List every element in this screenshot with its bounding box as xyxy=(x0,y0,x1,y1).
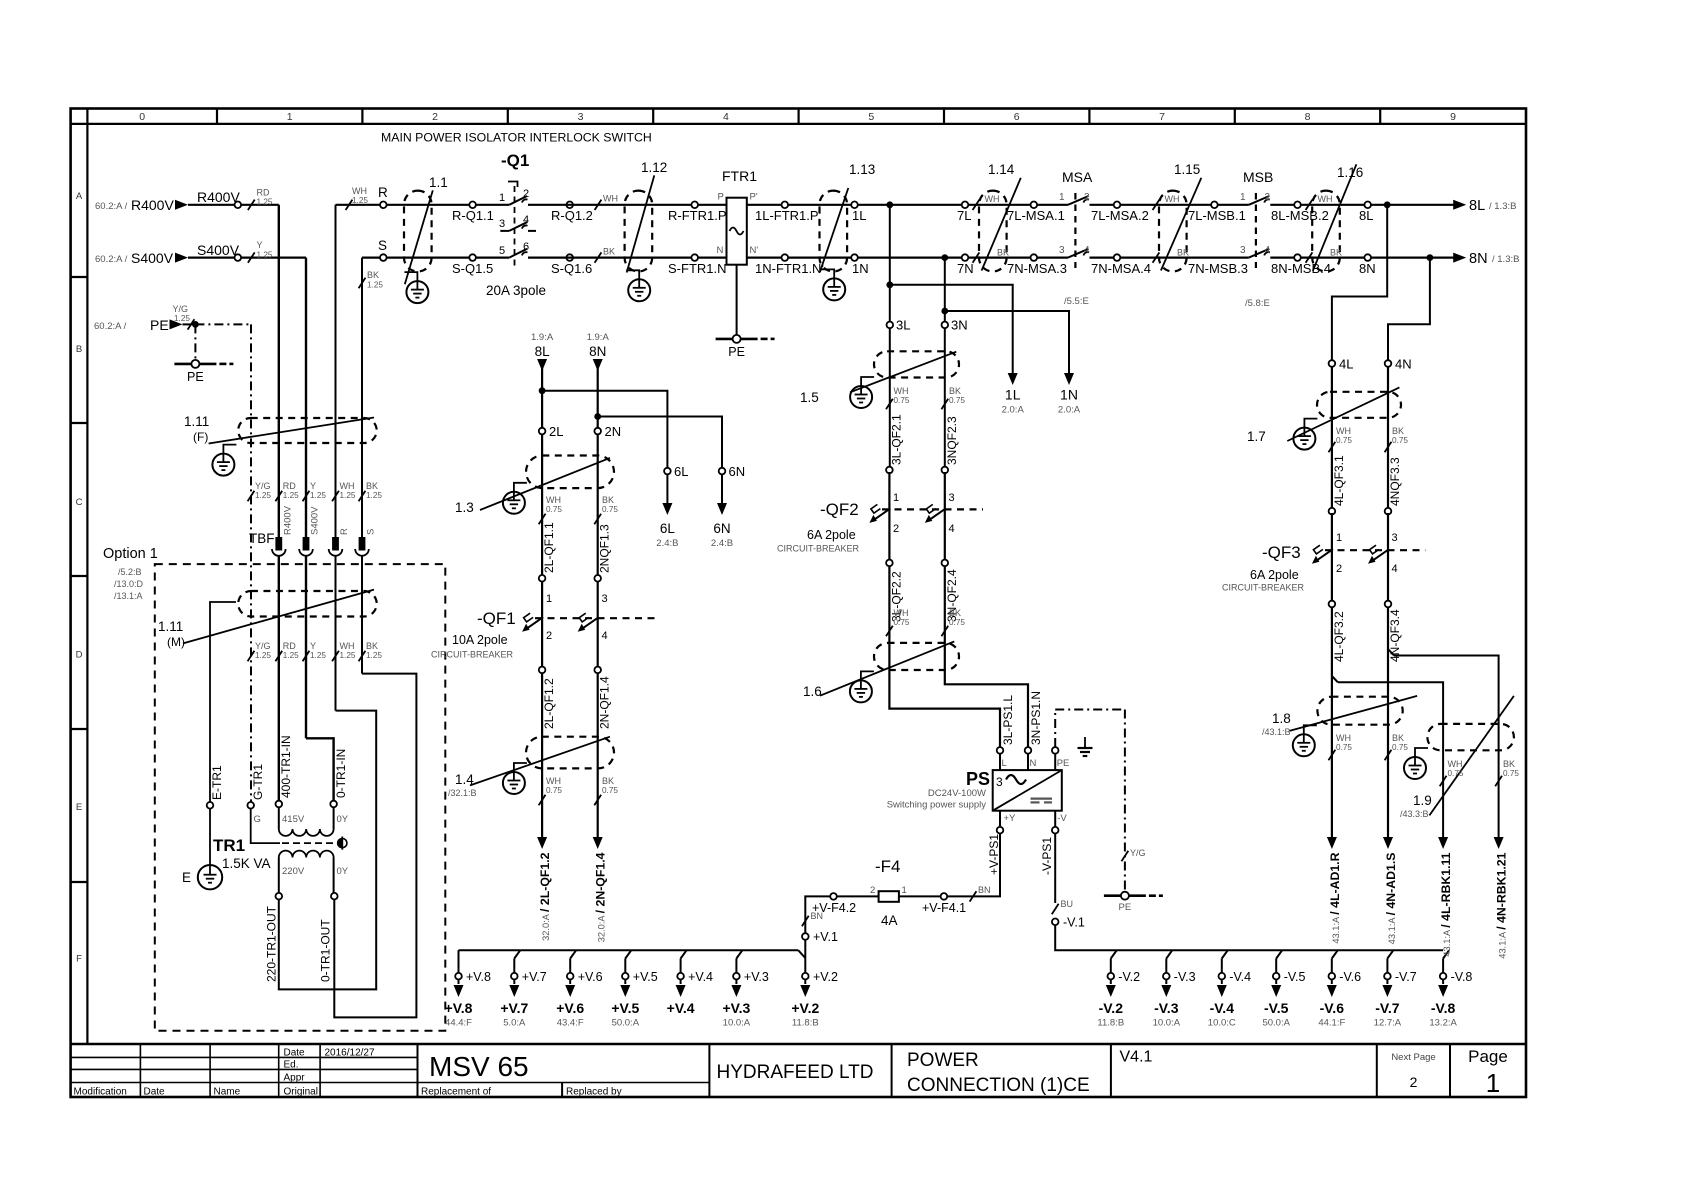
svg-text:1.11: 1.11 xyxy=(158,619,183,634)
svg-text:2: 2 xyxy=(523,188,529,200)
svg-text:1: 1 xyxy=(1240,192,1246,203)
terminal QF2 pin 1 xyxy=(886,467,899,504)
svg-text:E: E xyxy=(182,870,191,885)
terminal 6L xyxy=(664,464,688,479)
terminal R-Q1.2 xyxy=(551,202,593,224)
svg-text:1.25: 1.25 xyxy=(283,651,299,660)
svg-text:S-FTR1.N: S-FTR1.N xyxy=(668,261,727,276)
svg-text:4: 4 xyxy=(1392,563,1398,575)
svg-text:0.75: 0.75 xyxy=(602,505,618,514)
svg-text:+Y: +Y xyxy=(1004,813,1017,824)
CT oval 1.5 xyxy=(800,351,959,405)
node 1L xyxy=(851,202,866,224)
+V distribution bus xyxy=(459,950,806,958)
svg-text:BU: BU xyxy=(1061,899,1074,909)
svg-text:DC24V-100W: DC24V-100W xyxy=(928,788,986,799)
svg-text:1.25: 1.25 xyxy=(340,491,356,500)
svg-text:1.25: 1.25 xyxy=(310,491,326,500)
svg-text:1.4: 1.4 xyxy=(455,772,474,787)
svg-text:TR1: TR1 xyxy=(213,836,245,855)
breaker pole QF3 3-4 xyxy=(1368,545,1398,575)
svg-text:-V.5: -V.5 xyxy=(1284,970,1306,984)
wire 4L branch xyxy=(1332,205,1387,360)
earth symbol 1.4 xyxy=(503,772,525,794)
svg-text:WH: WH xyxy=(894,386,909,396)
svg-text:13.2:A: 13.2:A xyxy=(1429,1018,1457,1029)
svg-text:1.25: 1.25 xyxy=(352,196,368,205)
terminal R400V xyxy=(235,202,242,209)
earth symbol 1.8 xyxy=(1293,734,1315,756)
svg-text:2: 2 xyxy=(1084,192,1090,203)
svg-text:PE: PE xyxy=(187,370,204,384)
wire N bus MSA-MSB xyxy=(965,257,1454,259)
svg-text:0: 0 xyxy=(139,111,145,123)
svg-text:1.8: 1.8 xyxy=(1272,711,1291,726)
tap -V.8 xyxy=(1429,950,1472,1028)
svg-text:1.25: 1.25 xyxy=(257,198,273,207)
svg-text:1: 1 xyxy=(893,492,899,504)
svg-text:-Q1: -Q1 xyxy=(501,151,529,170)
sheet ref 4L-RBK1.11 xyxy=(1438,837,1453,957)
svg-text:-V.5: -V.5 xyxy=(1264,1000,1289,1016)
wire R400V xyxy=(188,204,279,206)
svg-text:-QF3: -QF3 xyxy=(1262,543,1301,562)
Option 1 enclosure xyxy=(103,546,445,1031)
terminal 1N-FTR1.N' xyxy=(755,254,824,276)
wire marker BN right xyxy=(970,885,991,902)
wire S to Q1 xyxy=(362,258,509,537)
wire branch 4L-RBK xyxy=(1332,676,1443,838)
svg-text:0Y: 0Y xyxy=(337,814,349,825)
svg-text:-V: -V xyxy=(1057,813,1067,824)
wire markers QF1 top xyxy=(539,495,619,524)
svg-text:0.75: 0.75 xyxy=(949,396,965,405)
svg-text:PE: PE xyxy=(150,317,169,333)
svg-text:4: 4 xyxy=(1084,245,1090,256)
svg-text:+V-F4.1: +V-F4.1 xyxy=(922,901,966,915)
svg-text:N: N xyxy=(717,245,724,256)
svg-text:1.12: 1.12 xyxy=(641,160,667,175)
svg-text:2016/12/27: 2016/12/27 xyxy=(325,1048,375,1059)
svg-text:P: P xyxy=(718,192,724,203)
svg-text:3L: 3L xyxy=(896,318,910,333)
wire marker BK 1.25 xyxy=(359,270,384,289)
terminal QF1 pin 2 xyxy=(539,667,546,674)
wire E-TR1 xyxy=(210,602,236,865)
svg-text:Y: Y xyxy=(310,481,316,491)
terminal QF1 pin 4 xyxy=(594,667,601,674)
svg-text:BK: BK xyxy=(997,248,1009,258)
svg-text:+V.3: +V.3 xyxy=(744,970,769,984)
svg-text:7L: 7L xyxy=(957,208,971,223)
node S xyxy=(378,238,387,261)
svg-text:PE: PE xyxy=(1119,902,1132,913)
wire S400V xyxy=(188,257,306,259)
svg-text:RD: RD xyxy=(283,481,296,491)
svg-text:-V.1: -V.1 xyxy=(1063,916,1085,930)
svg-text:CIRCUIT-BREAKER: CIRCUIT-BREAKER xyxy=(431,650,514,660)
svg-text:-V.7: -V.7 xyxy=(1395,970,1417,984)
earth symbol at PS xyxy=(1078,737,1093,756)
svg-text:415V: 415V xyxy=(282,814,305,825)
svg-text:+V.6: +V.6 xyxy=(556,1000,584,1016)
svg-text:WH: WH xyxy=(1336,733,1351,743)
svg-text:2L-QF1.1: 2L-QF1.1 xyxy=(542,522,556,573)
svg-text:0.75: 0.75 xyxy=(894,618,910,627)
svg-text:1.25: 1.25 xyxy=(310,651,326,660)
svg-text:2: 2 xyxy=(893,523,899,535)
svg-text:1.7: 1.7 xyxy=(1247,429,1266,444)
svg-text:1.25: 1.25 xyxy=(174,314,190,323)
svg-text:+V.8: +V.8 xyxy=(466,970,491,984)
circuit breaker -QF3 xyxy=(1222,513,1425,601)
junction 6N xyxy=(594,413,601,420)
svg-text:/ 1.3:B: / 1.3:B xyxy=(1489,201,1516,212)
svg-text:3: 3 xyxy=(1392,532,1398,544)
svg-text:MSA: MSA xyxy=(1062,169,1093,185)
sheet ref 4N-RBK1.21 xyxy=(1494,837,1509,959)
svg-text:6A 2pole: 6A 2pole xyxy=(807,528,856,542)
svg-text:BK: BK xyxy=(1503,759,1515,769)
wire S-Q1.6 to FTR1 xyxy=(528,257,727,259)
wire marker BK xyxy=(595,246,615,262)
row letters xyxy=(71,191,88,965)
svg-text:-QF2: -QF2 xyxy=(820,500,859,519)
terminal QF3 pin 1 xyxy=(1329,508,1343,544)
CT oval 1.11 M xyxy=(158,590,377,649)
svg-text:7L-MSA.2: 7L-MSA.2 xyxy=(1091,208,1149,223)
svg-text:4: 4 xyxy=(1265,245,1271,256)
node 7N xyxy=(957,254,974,276)
svg-text:1.25: 1.25 xyxy=(366,651,382,660)
earth symbol 1.12 xyxy=(628,279,650,301)
svg-text:8N: 8N xyxy=(1469,251,1488,267)
svg-text:2.0:A: 2.0:A xyxy=(1058,405,1081,416)
svg-text:0Y: 0Y xyxy=(337,866,349,877)
wire marker Y/G xyxy=(1122,848,1146,861)
svg-text:BK: BK xyxy=(949,386,961,396)
tap -V.3 xyxy=(1153,950,1196,1028)
svg-text:6N: 6N xyxy=(713,521,730,536)
CT oval 1.8 xyxy=(1262,696,1417,737)
svg-text:43.1:A / 4L-RBK1.11: 43.1:A / 4L-RBK1.11 xyxy=(1439,852,1453,956)
svg-text:2.0:A: 2.0:A xyxy=(1002,405,1025,416)
svg-text:0.75: 0.75 xyxy=(1336,436,1352,445)
svg-text:N: N xyxy=(1030,758,1037,769)
terminal QF2 pin 4 xyxy=(942,560,949,567)
wire QF2 out N xyxy=(945,566,1028,747)
wire +V riser xyxy=(947,834,1000,897)
svg-text:8L: 8L xyxy=(535,344,551,359)
svg-text:S-Q1.5: S-Q1.5 xyxy=(452,261,493,276)
svg-text:G-TR1: G-TR1 xyxy=(251,764,265,800)
svg-text:0.75: 0.75 xyxy=(1392,743,1408,752)
svg-text:+V.5: +V.5 xyxy=(633,970,658,984)
wire markers row inside Option 1 xyxy=(248,641,383,661)
svg-text:R: R xyxy=(378,185,388,200)
svg-text:+V.7: +V.7 xyxy=(522,970,547,984)
terminal R-Q1.1 xyxy=(452,202,494,224)
terminal 220-TR1-OUT xyxy=(265,893,283,982)
svg-text:Option 1: Option 1 xyxy=(103,546,158,562)
svg-text:3: 3 xyxy=(602,593,608,605)
wire R400V drop xyxy=(278,205,280,537)
earth symbol 1.6 xyxy=(850,680,872,702)
svg-text:10.0:A: 10.0:A xyxy=(723,1018,751,1029)
svg-text:N': N' xyxy=(750,245,759,256)
breaker pole QF1 1-2 xyxy=(522,613,552,642)
node 7L xyxy=(957,202,971,224)
svg-text:1N: 1N xyxy=(1060,387,1078,403)
svg-text:8L: 8L xyxy=(1359,208,1373,223)
wire 4N branch xyxy=(1388,258,1430,361)
svg-text:0.75: 0.75 xyxy=(546,786,562,795)
node 1N xyxy=(851,254,868,276)
contact MSB 1-2 xyxy=(1240,192,1271,205)
svg-text:Y: Y xyxy=(257,240,263,250)
wire markers 1.9 xyxy=(1440,759,1520,786)
svg-text:V4.1: V4.1 xyxy=(1120,1049,1153,1066)
wire markers row above TBF xyxy=(248,481,383,501)
svg-text:2: 2 xyxy=(1336,563,1342,575)
svg-text:+V.3: +V.3 xyxy=(722,1000,750,1016)
svg-text:1: 1 xyxy=(1059,192,1065,203)
svg-text:1N-FTR1.N': 1N-FTR1.N' xyxy=(755,261,824,276)
svg-text:R-Q1.1: R-Q1.1 xyxy=(452,208,494,223)
svg-text:44.4:F: 44.4:F xyxy=(445,1018,472,1029)
svg-text:1.5: 1.5 xyxy=(800,390,819,405)
breaker pole QF1 3-4 xyxy=(578,613,608,642)
svg-text:S: S xyxy=(366,529,377,535)
terminal +V.2 xyxy=(802,970,838,984)
TBF wires to Option 1 xyxy=(0,0,1,1)
svg-text:1.5K VA: 1.5K VA xyxy=(222,856,271,871)
terminal PS PE xyxy=(1052,747,1069,770)
CT oval 1.9 xyxy=(1400,696,1514,819)
svg-text:-V-PS1: -V-PS1 xyxy=(1040,837,1054,875)
earth symbol E xyxy=(182,865,222,889)
svg-text:6N: 6N xyxy=(729,464,746,479)
svg-text:Page: Page xyxy=(1468,1047,1508,1066)
earth symbol 1.11 F xyxy=(212,454,234,476)
terminal PS L xyxy=(997,747,1007,770)
wire to 1N arrow xyxy=(945,311,1069,381)
svg-text:Y/G: Y/G xyxy=(255,481,271,491)
svg-text:4A: 4A xyxy=(881,913,898,928)
svg-text:+V.1: +V.1 xyxy=(813,930,838,944)
svg-text:R400V: R400V xyxy=(131,197,174,213)
svg-text:Y: Y xyxy=(310,641,316,651)
svg-text:-V.7: -V.7 xyxy=(1375,1000,1400,1016)
sheet ref 2L-QF1.2 xyxy=(537,837,552,941)
svg-text:MSV 65: MSV 65 xyxy=(429,1051,529,1082)
svg-text:WH: WH xyxy=(1448,759,1463,769)
terminal QF3 pin 3 xyxy=(1385,508,1398,544)
svg-text:5.0:A: 5.0:A xyxy=(503,1018,526,1029)
svg-text:5: 5 xyxy=(499,245,505,257)
contact Q1 1-2 xyxy=(499,188,529,205)
junction 1L branch xyxy=(886,281,893,288)
svg-text:7: 7 xyxy=(1159,111,1165,123)
svg-text:11.8:B: 11.8:B xyxy=(792,1018,819,1029)
svg-text:9: 9 xyxy=(1450,111,1456,123)
svg-text:WH: WH xyxy=(340,481,355,491)
svg-text:44.1:F: 44.1:F xyxy=(1318,1018,1345,1029)
svg-text:MSB: MSB xyxy=(1243,169,1273,185)
svg-text:1.25: 1.25 xyxy=(255,491,271,500)
svg-text:3L-PS1.L: 3L-PS1.L xyxy=(1001,695,1015,745)
sheet ref +V.2 xyxy=(791,980,819,1029)
svg-text:+V.2: +V.2 xyxy=(791,1000,819,1016)
input R400V xyxy=(95,189,240,213)
svg-text:+V.7: +V.7 xyxy=(500,1000,528,1016)
svg-text:32.0:A / 2N-QF1.4: 32.0:A / 2N-QF1.4 xyxy=(594,852,608,942)
svg-text:32.0:A / 2L-QF1.2: 32.0:A / 2L-QF1.2 xyxy=(538,852,552,941)
svg-text:7L-MSA.1: 7L-MSA.1 xyxy=(1007,208,1065,223)
svg-text:WH: WH xyxy=(546,776,561,786)
wire FTR1 out L xyxy=(747,204,965,206)
tap -V.7 xyxy=(1374,950,1417,1028)
svg-text:2N-QF1.4: 2N-QF1.4 xyxy=(598,676,612,729)
svg-text:0.75: 0.75 xyxy=(1503,769,1519,778)
wire R-Q1.2 to FTR1 xyxy=(528,204,727,206)
junction 3L xyxy=(886,201,893,208)
sheet ref 6N xyxy=(711,474,733,549)
terminal 400-TR1-IN xyxy=(276,735,294,807)
svg-text:BK: BK xyxy=(366,641,378,651)
svg-text:0.75: 0.75 xyxy=(1336,743,1352,752)
svg-text:RD: RD xyxy=(283,641,296,651)
terminal strip TBF xyxy=(249,505,377,556)
terminal 0-TR1-OUT xyxy=(319,893,338,982)
border frame xyxy=(71,109,1526,1098)
wire F4 to +V.1 xyxy=(805,896,830,933)
svg-text:0-TR1-IN: 0-TR1-IN xyxy=(334,749,348,798)
sheet source 8N xyxy=(587,332,610,371)
wire 3N drop xyxy=(944,258,946,470)
node PE junction xyxy=(192,321,199,328)
terminal PS N xyxy=(1025,747,1037,770)
CT oval 1.13 xyxy=(820,162,876,272)
svg-text:+V.4: +V.4 xyxy=(688,970,713,984)
svg-text:8L: 8L xyxy=(1469,198,1485,214)
wire L bus MSA-MSB xyxy=(965,204,1454,206)
breaker pole QF2 3-4 xyxy=(925,504,955,535)
svg-text:/5.5:E: /5.5:E xyxy=(1064,296,1089,307)
wire marker RD 1.25 xyxy=(248,187,273,210)
svg-text:1: 1 xyxy=(546,593,552,605)
svg-text:WH: WH xyxy=(340,641,355,651)
MSA linkage xyxy=(1074,193,1076,268)
terminal 8L-MSB.2 xyxy=(1271,202,1329,224)
tap +V.8 xyxy=(445,950,491,1028)
svg-text:3: 3 xyxy=(996,775,1003,789)
svg-text:+V.6: +V.6 xyxy=(578,970,603,984)
svg-text:1: 1 xyxy=(902,885,907,896)
svg-text:7L-MSB.1: 7L-MSB.1 xyxy=(1188,208,1246,223)
svg-text:B: B xyxy=(76,344,82,355)
svg-text:1L: 1L xyxy=(852,208,866,223)
svg-text:4: 4 xyxy=(602,630,608,642)
svg-text:/13.1:A: /13.1:A xyxy=(114,591,143,601)
wire FTR1 PE xyxy=(736,265,738,339)
column numbers xyxy=(139,111,1456,123)
wire to 6N xyxy=(598,417,722,468)
wire marker Y 1.25 xyxy=(248,240,273,263)
wire PE dashdot xyxy=(195,324,251,805)
svg-text:7N-MSA.3: 7N-MSA.3 xyxy=(1007,261,1067,276)
wire 2L xyxy=(541,362,543,578)
svg-text:4N: 4N xyxy=(1395,356,1412,371)
svg-text:L: L xyxy=(1002,758,1007,769)
svg-text:S400V: S400V xyxy=(131,250,174,266)
svg-text:8N-MSB.4: 8N-MSB.4 xyxy=(1271,261,1331,276)
wire to 6L xyxy=(542,391,667,468)
terminal PS +V out xyxy=(997,811,1016,834)
svg-text:0.75: 0.75 xyxy=(546,505,562,514)
svg-text:Replacement of: Replacement of xyxy=(421,1087,491,1098)
svg-text:G: G xyxy=(254,814,261,825)
tap -V.4 xyxy=(1208,950,1251,1028)
wire marker WH xyxy=(595,194,618,211)
terminal 3L xyxy=(887,318,911,333)
tap +V.7 xyxy=(500,950,546,1028)
junction 4L xyxy=(1384,201,1391,208)
svg-text:CIRCUIT-BREAKER: CIRCUIT-BREAKER xyxy=(1222,583,1305,593)
svg-text:/ 1.3:B: / 1.3:B xyxy=(1492,254,1519,265)
wire 4N down xyxy=(1387,367,1389,508)
tap +V.5 xyxy=(611,950,657,1028)
svg-text:8L-MSB.2: 8L-MSB.2 xyxy=(1271,208,1329,223)
wire 2N xyxy=(597,362,599,578)
svg-text:WH: WH xyxy=(1318,194,1333,204)
svg-text:+V.4: +V.4 xyxy=(667,1000,695,1016)
wire markers QF2 bottom xyxy=(886,608,965,636)
svg-text:MAIN POWER ISOLATOR INTERLOCK: MAIN POWER ISOLATOR INTERLOCK SWITCH xyxy=(381,131,652,145)
svg-text:2: 2 xyxy=(1410,1074,1418,1090)
svg-text:2N: 2N xyxy=(605,424,622,439)
svg-text:2: 2 xyxy=(546,630,552,642)
svg-text:BK: BK xyxy=(1330,248,1342,258)
terminal 2L xyxy=(539,424,564,439)
svg-text:WH: WH xyxy=(352,186,367,196)
svg-text:WH: WH xyxy=(603,194,618,204)
svg-text:D: D xyxy=(76,650,83,661)
svg-text:1.13: 1.13 xyxy=(849,162,875,177)
earth symbol 1.5 xyxy=(850,386,872,408)
fuse -F4 xyxy=(860,857,941,928)
svg-text:7N-MSA.4: 7N-MSA.4 xyxy=(1091,261,1151,276)
svg-text:/43.1:B: /43.1:B xyxy=(1262,727,1291,737)
svg-text:F: F xyxy=(76,954,82,965)
svg-text:Date: Date xyxy=(284,1048,306,1059)
terminal -V.1 xyxy=(1052,916,1085,930)
svg-text:A: A xyxy=(76,191,83,202)
contact Q1 5-6 xyxy=(499,241,529,258)
svg-text:C: C xyxy=(76,497,83,508)
wire markers QF2 top xyxy=(886,386,965,409)
wire 4L down xyxy=(1331,367,1333,508)
svg-text:3L-QF2.1: 3L-QF2.1 xyxy=(889,414,903,465)
svg-text:1: 1 xyxy=(499,192,505,204)
svg-text:3: 3 xyxy=(1240,245,1246,256)
CT oval 1.3 xyxy=(455,456,614,516)
terminal PS -V out xyxy=(1052,811,1067,834)
CT oval 1.7 xyxy=(1247,387,1401,444)
wire PS PE dashdot xyxy=(1055,710,1125,896)
contact MSA 3-4 xyxy=(1059,245,1090,258)
svg-text:E-TR1: E-TR1 xyxy=(210,765,224,800)
